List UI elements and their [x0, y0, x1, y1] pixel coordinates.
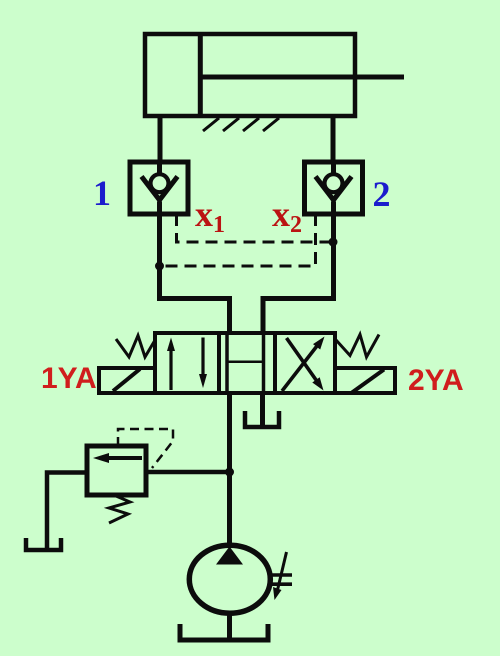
relief spring: [109, 496, 130, 523]
svg-text:2YA: 2YA: [408, 364, 464, 397]
pump shaft: [269, 573, 292, 577]
pilot line x1 (dashed): [177, 214, 334, 242]
wire right main line to valve port B: [263, 213, 334, 334]
svg-text:2: 2: [290, 212, 302, 238]
centre position H: [225, 333, 229, 393]
cylinder piston: [198, 34, 203, 116]
wire pump to tank: [227, 613, 232, 641]
wire T line valve to tank: [260, 393, 265, 427]
right spring: [336, 335, 379, 358]
junction dot P: [225, 468, 234, 477]
tank under pump: [180, 624, 268, 640]
wire cylinder right port: [331, 116, 336, 162]
svg-text:1: 1: [93, 173, 111, 213]
pump circle: [189, 545, 270, 613]
svg-text:1: 1: [213, 212, 225, 238]
solenoid 1YA box: [99, 368, 155, 393]
check valve 1 internals: [157, 162, 162, 174]
solenoid 2YA box: [335, 368, 395, 393]
left position arrows: [171, 338, 203, 391]
svg-text:1YA: 1YA: [41, 362, 97, 395]
svg-text:x: x: [272, 194, 290, 234]
wire cylinder left port: [158, 116, 163, 162]
cylinder body: [145, 34, 355, 116]
check valve 2 internals: [331, 162, 336, 174]
check valve 1 box: [130, 162, 188, 214]
pump outlet triangle: [216, 547, 243, 565]
check valve 2 box: [305, 162, 363, 214]
svg-text:x: x: [195, 194, 213, 234]
svg-text:2: 2: [373, 174, 391, 214]
relief valve arrow: [105, 456, 142, 460]
right position crossed arrows: [282, 338, 319, 391]
wire relief to tank: [47, 473, 87, 550]
wire P line valve to pump: [227, 393, 232, 546]
wire left main line to valve port A: [160, 213, 230, 334]
junction dot left: [155, 262, 164, 271]
relief valve box: [87, 446, 146, 495]
pilot line x2 (dashed): [160, 214, 316, 266]
relief pilot dashed: [118, 429, 173, 468]
mounting hatching: [203, 118, 279, 131]
tank under valve: [245, 411, 279, 427]
valve envelope: [155, 333, 335, 393]
tank left: [26, 538, 61, 550]
wire relief branch: [146, 470, 230, 475]
left spring: [116, 336, 155, 358]
shaft arrow: [278, 552, 287, 590]
cylinder rod: [200, 75, 404, 80]
junction dot right: [329, 238, 338, 247]
